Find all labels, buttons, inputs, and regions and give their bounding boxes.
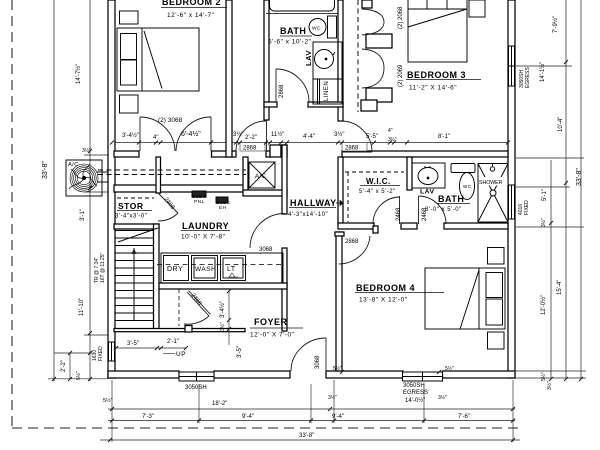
wall HW2 under WIC <box>338 223 374 229</box>
bedroom3 closet pier bottom <box>366 88 392 102</box>
svg-text:7'-6": 7'-6" <box>458 414 470 420</box>
extension line left stor top <box>84 191 108 193</box>
window 3050SH EGRESS right wall (bedroom3) <box>509 46 515 86</box>
nightstand bedroom2 bottom <box>120 95 139 113</box>
svg-text:3'-5": 3'-5" <box>237 346 243 358</box>
bath left wall vertical <box>264 0 269 120</box>
extension line bottom-left corner dims <box>54 352 92 354</box>
svg-text:2868: 2868 <box>243 146 257 152</box>
svg-text:2'-1": 2'-1" <box>167 339 179 345</box>
stor right stub wall <box>156 157 161 193</box>
svg-text:3'-4½": 3'-4½" <box>122 132 139 139</box>
svg-text:3'-1": 3'-1" <box>80 209 86 221</box>
closet door 2868 leaf <box>266 120 268 151</box>
svg-text:WC: WC <box>312 26 321 32</box>
svg-text:16T @ 11.25": 16T @ 11.25" <box>100 252 106 283</box>
svg-text:5'-6" x 10'-2": 5'-6" x 10'-2" <box>268 39 312 46</box>
svg-text:3068: 3068 <box>315 355 321 369</box>
svg-text:5½": 5½" <box>540 372 547 381</box>
svg-text:STOR: STOR <box>118 201 143 211</box>
svg-text:DRY: DRY <box>167 266 183 273</box>
exterior A/C condenser square <box>66 160 102 196</box>
toilet W.C. bath1 tank <box>328 16 337 38</box>
chase wall above stor <box>114 185 244 192</box>
laundry bottom wall <box>159 283 287 289</box>
top dimension row through hallway <box>112 142 510 144</box>
window 4016 FIXED right wall (shower) <box>509 185 515 219</box>
ticks right column <box>549 60 583 381</box>
exterior wall left <box>108 0 115 378</box>
svg-text:LT: LT <box>227 266 236 273</box>
svg-text:5½": 5½" <box>103 397 113 404</box>
wall HW2 jog <box>373 226 378 233</box>
svg-text:11'-10": 11'-10" <box>79 298 85 316</box>
bath2 door 2468 leaf <box>418 196 420 224</box>
bath bottom wall seg right <box>308 102 343 107</box>
svg-text:BATH: BATH <box>280 26 306 36</box>
foyer north wall under stairs <box>114 329 245 332</box>
svg-text:14'-0½": 14'-0½" <box>405 397 425 404</box>
wall H1 jamb right of 2868 door <box>266 151 270 157</box>
svg-text:LAUNDRY: LAUNDRY <box>182 221 229 231</box>
svg-text:2'-2": 2'-2" <box>245 135 257 141</box>
svg-text:14'-1½": 14'-1½" <box>539 62 546 82</box>
front door 3068 arc <box>291 338 326 371</box>
lav sink bath1 <box>315 50 334 69</box>
bedroom2 double door right leaf <box>210 117 212 151</box>
lav sink bath2 <box>418 168 438 185</box>
bedroom2 double door (2)3068 left leaf <box>139 117 141 151</box>
svg-text:EGRESS: EGRESS <box>525 66 531 88</box>
nightstand bedroom3 <box>469 0 485 17</box>
A/C closet left wall <box>243 157 248 191</box>
extension line right H1 <box>516 157 584 159</box>
svg-text:LAV: LAV <box>420 189 435 196</box>
bath2 door 2468 arc <box>419 196 447 224</box>
svg-text:WASH: WASH <box>195 266 216 273</box>
nightstand bedroom2 top <box>120 11 139 24</box>
svg-text:HALLWAY: HALLWAY <box>290 198 337 208</box>
svg-text:2868: 2868 <box>345 146 359 152</box>
bath right wall / closet back wall <box>338 0 343 121</box>
window 3050SH EGRESS bottom (bedroom4) <box>403 372 443 381</box>
svg-text:EH: EH <box>219 205 227 211</box>
svg-text:5½": 5½" <box>445 365 454 372</box>
svg-text:15'-4": 15'-4" <box>557 280 563 295</box>
extension line right HW2 <box>516 226 584 228</box>
bottom dimension row 18'-2" <box>108 408 515 410</box>
bottom dimension row 7'-3" 9'-4" <box>108 420 515 422</box>
svg-text:5'-1": 5'-1" <box>542 189 548 201</box>
bath door 2868 leaf <box>275 69 277 102</box>
svg-text:4": 4" <box>153 135 158 141</box>
refrigerant dashed lines <box>98 169 246 171</box>
svg-text:LINEN: LINEN <box>324 81 330 101</box>
bedroom3 closet door arc d <box>362 68 384 88</box>
bedroom3 closet door arc c <box>362 49 384 68</box>
svg-text:3'-4"x3'-0": 3'-4"x3'-0" <box>115 214 147 220</box>
svg-text:FIXED: FIXED <box>524 200 530 215</box>
svg-text:3050SH: 3050SH <box>403 383 425 389</box>
svg-text:BATH: BATH <box>438 194 464 204</box>
svg-text:18'-2": 18'-2" <box>212 401 227 407</box>
linen closet <box>313 79 342 104</box>
WIC shelf dashed <box>345 171 404 173</box>
ticks window bedroom4 <box>340 370 441 374</box>
svg-text:33'-8": 33'-8" <box>299 433 314 439</box>
elec EH box <box>216 197 228 203</box>
WIC-bedroom4 door 2468 arc <box>373 197 400 224</box>
bedroom4 door jamb cap <box>335 232 344 236</box>
understair door jamb block <box>185 326 192 333</box>
svg-text:2'-2": 2'-2" <box>61 360 67 372</box>
svg-text:12'-0½": 12'-0½" <box>540 295 547 315</box>
wall HW2 right seg (bath2 bottom) <box>444 223 508 229</box>
WIC / lav nook divider wall <box>407 157 412 190</box>
bedroom2 double door right arc <box>176 117 211 151</box>
svg-text:12'-0" X 7'-0": 12'-0" X 7'-0" <box>250 332 295 339</box>
dryer box <box>164 256 189 281</box>
svg-text:3½": 3½" <box>546 381 553 390</box>
ticks left column <box>52 149 92 381</box>
understair door 2468 arc <box>184 316 209 324</box>
right dimension line middle <box>565 0 567 378</box>
svg-text:14'-7½": 14'-7½" <box>75 64 82 84</box>
nightstand bedroom4 bottom <box>488 332 505 349</box>
wall H1 bedroom2 left seg <box>114 151 139 157</box>
window 1630 FIXED left wall (stairs) <box>109 342 115 361</box>
svg-text:5'-4" x 5'-2": 5'-4" x 5'-2" <box>359 189 396 195</box>
shower head <box>490 167 494 171</box>
shower pan <box>478 164 508 223</box>
svg-text:11½": 11½" <box>271 131 284 138</box>
stor shelf dashed <box>117 197 154 199</box>
svg-text:3½": 3½" <box>233 131 243 138</box>
svg-text:3½": 3½" <box>540 218 547 227</box>
understair dashed wall <box>178 289 180 326</box>
extension line left window top <box>84 334 108 336</box>
svg-text:8'-0" x 5'-0": 8'-0" x 5'-0" <box>425 207 462 213</box>
left dimension line 33'-8" <box>53 0 55 381</box>
extension line right window center <box>516 65 572 67</box>
closet door 2868 arc <box>236 121 266 151</box>
svg-text:5'-5": 5'-5" <box>366 134 378 140</box>
ticks foyer dims <box>114 289 231 350</box>
bathtub <box>270 0 335 11</box>
extension line right bottom wall a <box>516 370 586 372</box>
svg-text:9'-4": 9'-4" <box>242 414 254 420</box>
svg-text:4": 4" <box>388 128 393 134</box>
svg-text:2868: 2868 <box>345 239 359 245</box>
wall corner hallway left <box>281 145 287 157</box>
bedroom3 door 2868 arc <box>341 121 372 152</box>
ticks bottom rows <box>110 407 515 411</box>
stor bottom wall <box>114 224 159 229</box>
svg-text:UP: UP <box>176 351 186 358</box>
toilet W.C. bath1 bowl <box>309 19 326 36</box>
svg-text:4'-4": 4'-4" <box>303 134 315 140</box>
lav vanity bath2 <box>412 163 445 188</box>
bedroom3 door 2868 leaf <box>342 151 372 153</box>
svg-text:2868: 2868 <box>279 84 285 98</box>
lav vanity bath1 <box>313 42 342 79</box>
svg-text:A/C: A/C <box>255 174 267 180</box>
svg-text:WC: WC <box>463 184 472 189</box>
svg-text:2468: 2468 <box>396 207 402 221</box>
bedroom4 entry door 2868 arc <box>339 236 370 264</box>
svg-text:3068: 3068 <box>259 247 273 253</box>
svg-text:10'-4": 10'-4" <box>558 117 564 132</box>
svg-text:12'-6" x 14'-7": 12'-6" x 14'-7" <box>167 12 215 19</box>
svg-text:3½": 3½" <box>82 147 91 154</box>
bed bedroom3 <box>408 0 467 62</box>
front door 3068 leaf <box>325 338 327 371</box>
stair break line <box>118 228 158 242</box>
wall H1 seg between doors <box>212 151 237 157</box>
elec panel box <box>192 191 206 197</box>
bath bottom wall seg left <box>264 102 277 107</box>
svg-text:FIXED: FIXED <box>98 346 104 361</box>
svg-text:3½": 3½" <box>388 136 397 143</box>
toilet bath2 tank <box>451 164 475 173</box>
wall H1 right portion (bedroom3 bottom) <box>342 151 508 157</box>
exterior wall bottom seg4 <box>443 371 516 378</box>
svg-text:3½": 3½" <box>328 394 337 401</box>
svg-text:3½": 3½" <box>438 394 447 401</box>
svg-text:33'-8": 33'-8" <box>42 161 49 179</box>
svg-text:3'-5": 3'-5" <box>127 341 139 347</box>
roof overhang dashed line bottom <box>12 427 518 429</box>
bedroom3 closet jamb top <box>362 0 372 8</box>
bedroom3 closet door arc a <box>362 9 384 22</box>
right dimension line 33'-8" <box>580 0 582 378</box>
stor door 2468 arc <box>158 213 178 221</box>
stor door 2468 leaf <box>158 193 178 213</box>
svg-text:3050SH: 3050SH <box>185 385 207 391</box>
bed bedroom2 <box>117 28 199 91</box>
svg-text:2468: 2468 <box>189 293 202 308</box>
exterior wall bottom seg3 <box>326 371 403 378</box>
stair up arrow <box>133 248 135 320</box>
condenser fan circle <box>70 164 98 192</box>
bed bedroom4 <box>425 268 505 329</box>
WIC left wall <box>338 157 343 224</box>
bedroom4 left wall <box>336 232 342 371</box>
svg-text:3½": 3½" <box>219 322 226 331</box>
svg-text:(2) 2068: (2) 2068 <box>398 6 404 29</box>
exterior wall right <box>508 0 515 378</box>
svg-text:W.I.C.: W.I.C. <box>366 177 391 186</box>
bedroom3 closet corner piece <box>361 100 377 111</box>
svg-text:SHOWER: SHOWER <box>479 180 503 186</box>
door label 2868 box right <box>342 143 367 152</box>
label SHOWER <box>479 177 508 186</box>
svg-text:3½": 3½" <box>334 131 344 138</box>
wall HW2 stub between doors <box>401 223 417 229</box>
laundry tub LT box <box>221 256 246 281</box>
svg-text:33'-8": 33'-8" <box>576 168 583 186</box>
laundry counter shelf dashed <box>157 264 284 266</box>
exterior wall bottom seg1 <box>108 371 179 378</box>
A/C closet unit square <box>249 162 275 188</box>
hallway left wall vertical lower <box>282 248 287 331</box>
bedroom2/closet wall vertical <box>226 0 232 157</box>
wall stub 11.5in at hallway <box>270 145 281 157</box>
ticks top dim row <box>110 141 510 145</box>
A/C closet bottom wall <box>243 190 287 196</box>
svg-text:FOYER: FOYER <box>254 317 288 327</box>
washer box <box>192 256 218 281</box>
svg-text:LAV: LAV <box>304 50 313 66</box>
nightstand bedroom4 top <box>488 248 505 265</box>
svg-text:BEDROOM 2: BEDROOM 2 <box>162 0 221 7</box>
extension line right 5'-1 top <box>516 186 570 188</box>
exterior wall bottom seg2 <box>214 371 290 378</box>
bedroom3 closet rod dashed <box>357 0 359 112</box>
condenser leader lines <box>97 171 108 173</box>
svg-text:A/C: A/C <box>68 162 79 168</box>
bedroom3 closet door arc b <box>362 22 384 35</box>
svg-text:8'-1": 8'-1" <box>438 134 450 140</box>
WIC-bedroom4 door 2468 leaf <box>399 196 401 224</box>
bath door 2868 arc <box>276 69 309 102</box>
laundry counter <box>161 253 283 283</box>
window 3050SH bottom left <box>179 372 214 381</box>
understair door 2468 leaf <box>187 292 209 316</box>
svg-text:5½": 5½" <box>333 365 342 372</box>
laundry door 3068 arc <box>250 214 285 249</box>
svg-text:BEDROOM 3: BEDROOM 3 <box>407 70 466 80</box>
svg-text:7'-9½": 7'-9½" <box>552 16 559 33</box>
svg-text:(2) 3068: (2) 3068 <box>158 117 183 124</box>
svg-text:11'-2" X 14'-6": 11'-2" X 14'-6" <box>409 85 457 92</box>
svg-text:6'-4½": 6'-4½" <box>181 130 201 138</box>
bottom dimension row 33'-8" <box>100 439 520 441</box>
stair treads <box>115 231 154 321</box>
roof overhang dashed line left <box>11 0 13 428</box>
stair right wall <box>154 224 160 331</box>
svg-text:PNL: PNL <box>194 199 205 205</box>
svg-text:4'-3"x14'-10": 4'-3"x14'-10" <box>288 212 328 218</box>
hallway left wall vertical upper <box>282 145 287 214</box>
svg-text:3'-4½": 3'-4½" <box>219 301 226 318</box>
bedroom3 closet pier middle <box>366 34 392 48</box>
right dimension line inner <box>550 160 552 378</box>
left dimension line inner <box>89 0 91 381</box>
extension line left bottom wall <box>48 378 108 380</box>
svg-text:2468: 2468 <box>422 207 428 221</box>
toilet bath2 bowl <box>460 173 475 200</box>
foyer small dim line <box>114 347 186 349</box>
door label 2868 box left <box>240 143 265 152</box>
extension verticals bottom <box>111 380 113 442</box>
bedroom2 double door left arc <box>140 117 175 151</box>
svg-text:10'-0" X 7'-8": 10'-0" X 7'-8" <box>181 234 226 241</box>
svg-text:BEDROOM 4: BEDROOM 4 <box>356 283 415 293</box>
svg-text:13'-8" X 12'-0": 13'-8" X 12'-0" <box>359 297 408 304</box>
extension line left H1 <box>84 154 108 156</box>
svg-text:7'-3": 7'-3" <box>142 414 154 420</box>
svg-text:(2) 2069: (2) 2069 <box>398 64 404 87</box>
extension line right bottom wall b <box>516 377 586 379</box>
